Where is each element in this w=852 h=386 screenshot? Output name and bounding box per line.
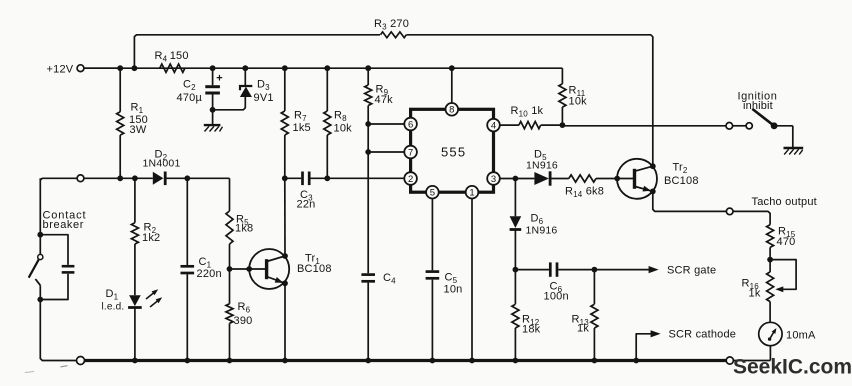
resistor R14: [565, 175, 617, 199]
svg-text:1N916: 1N916: [526, 160, 558, 172]
wire pin6: [368, 123, 404, 125]
svg-text:1k: 1k: [749, 288, 761, 300]
smudge marks: [25, 366, 68, 373]
resistor R4: [155, 50, 189, 72]
svg-text:22n: 22n: [297, 199, 316, 211]
wire contact-breaker top: [40, 178, 77, 180]
resistor R6: [226, 269, 252, 361]
wire pin1 drop: [471, 199, 473, 361]
resistor R13: [572, 270, 598, 361]
label contact breaker: [43, 210, 87, 232]
node R1 bottom: [117, 175, 123, 181]
svg-text:3: 3: [491, 174, 496, 185]
svg-text:R14 6k8: R14 6k8: [565, 186, 604, 200]
resistor R11: [559, 84, 587, 125]
node R13 top: [592, 267, 598, 273]
svg-text:8: 8: [449, 105, 454, 116]
terminal inhibit right: [746, 123, 752, 129]
ground ignition inhibit: [784, 148, 804, 155]
svg-text:SCR cathode: SCR cathode: [669, 329, 737, 341]
wire +12 rail into R11: [561, 68, 563, 84]
pin 8 of 555: [446, 103, 459, 116]
node Tr1 base junction: [227, 266, 233, 272]
svg-text:1k2: 1k2: [142, 232, 160, 244]
wire Tr1 emitter to rail: [284, 283, 286, 360]
wire pins6-7 rail to C4: [367, 124, 369, 273]
watermark SeekIC.com: [733, 356, 852, 379]
wire R5 drop: [229, 178, 231, 211]
pin 2 of 555: [404, 172, 417, 185]
node rail pin1: [469, 358, 475, 364]
svg-text:breaker: breaker: [43, 219, 85, 231]
node D3 top: [242, 65, 248, 71]
node breaker cap top: [37, 232, 43, 238]
svg-text:10n: 10n: [444, 284, 463, 296]
pin 4 of 555: [487, 119, 500, 132]
terminal breaker top: [77, 175, 84, 182]
wire meter to rail: [733, 346, 770, 361]
wire ignition inhibit: [562, 125, 726, 127]
node C2 bottom: [210, 107, 216, 113]
node Tr2 base wire: [614, 176, 620, 182]
svg-text:555: 555: [441, 145, 466, 160]
svg-text:1N4001: 1N4001: [143, 158, 181, 170]
wire pin5 drop: [431, 199, 433, 271]
diode D6 1N916: [510, 179, 558, 270]
svg-text:5: 5: [430, 188, 435, 199]
wire breaker to rail: [40, 300, 77, 361]
terminal tacho output: [726, 196, 817, 215]
node rail C4: [365, 358, 371, 364]
svg-text:390: 390: [234, 315, 253, 327]
diode D5 1N916: [526, 149, 569, 186]
svg-text:2: 2: [408, 174, 413, 185]
svg-text:6: 6: [408, 119, 413, 130]
wire pin3: [500, 178, 535, 180]
node R3 riser: [132, 65, 138, 71]
node R9 top: [365, 65, 371, 71]
transistor Q1 Tr1 BC108: [230, 249, 332, 289]
wire SCR cathode arrow: [636, 329, 736, 361]
svg-text:BC108: BC108: [664, 175, 699, 187]
pin 1 of 555: [466, 186, 479, 199]
svg-text:9V1: 9V1: [254, 92, 274, 104]
svg-text:SeekIC.com: SeekIC.com: [733, 356, 852, 379]
svg-text:R10 1k: R10 1k: [511, 105, 544, 119]
node rail C1: [184, 358, 190, 364]
node R15-R16 junction: [767, 257, 773, 263]
wire breaker left: [39, 178, 41, 255]
wire R16 wiper loop: [770, 260, 796, 293]
terminal inhibit left: [726, 123, 733, 130]
svg-text:SCR gate: SCR gate: [667, 265, 716, 277]
transistor Q2 Tr2 BC108: [617, 159, 699, 199]
wire R3 top rail: [134, 35, 380, 66]
capacitor C2: [177, 68, 223, 110]
resistor R2: [131, 178, 160, 295]
svg-text:1k8: 1k8: [235, 223, 253, 235]
potentiometer R16: [742, 260, 774, 323]
resistor R7: [281, 68, 311, 178]
svg-text:470µ: 470µ: [177, 92, 203, 104]
node R7 top: [282, 65, 288, 71]
terminal ground rail right: [726, 357, 733, 364]
zener D3: [214, 68, 274, 110]
svg-text:7: 7: [408, 147, 413, 158]
wire pin8: [451, 68, 453, 103]
node breaker bottom: [37, 297, 43, 303]
node R8 top: [324, 65, 330, 71]
svg-text:3W: 3W: [130, 124, 147, 136]
svg-text:R4 150: R4 150: [155, 50, 189, 64]
node Tr1 collector: [282, 253, 288, 259]
svg-text:4: 4: [491, 121, 496, 132]
wire ground rail: [85, 359, 726, 362]
node C2 top: [210, 65, 216, 71]
wire SCR gate arrow: [594, 265, 716, 277]
resistor R1: [117, 68, 148, 178]
op-amp U1 555 timer: [411, 109, 494, 192]
resistor R9: [365, 68, 393, 124]
wire +12V rail: [84, 67, 562, 69]
resistor R12: [512, 270, 541, 361]
node D6 top: [513, 176, 519, 182]
svg-text:1k5: 1k5: [293, 122, 311, 134]
node pin8 riser: [449, 65, 455, 71]
svg-text:+: +: [216, 73, 223, 85]
ground under C2: [204, 110, 223, 132]
terminal +12V: [47, 64, 121, 76]
capacitor C4: [361, 272, 396, 361]
svg-text:1N916: 1N916: [526, 225, 558, 237]
svg-text:18k: 18k: [522, 324, 541, 336]
node rail Tr1 emitter: [282, 358, 288, 364]
node Tr1 emitter: [282, 280, 288, 286]
node pin6 junction: [365, 121, 371, 127]
node C1 top: [184, 175, 190, 181]
capacitor C5: [426, 272, 463, 361]
wire Tr1 collector riser: [284, 178, 286, 256]
svg-text:BC108: BC108: [297, 263, 332, 275]
pin 7 of 555: [404, 146, 417, 159]
capacitor C6: [515, 262, 594, 302]
svg-text:10k: 10k: [569, 96, 588, 108]
capacitor C1: [181, 178, 222, 360]
resistor R5: [226, 211, 253, 269]
node rail D1: [132, 358, 138, 364]
wire pin7: [368, 151, 404, 153]
node rail C5: [430, 358, 436, 364]
node C6 left: [513, 267, 519, 273]
diode D2 1N4001: [143, 149, 230, 186]
terminal ground rail left: [77, 357, 85, 365]
wire D2 row: [84, 177, 153, 179]
pin 6 of 555: [404, 118, 417, 131]
resistor R10: [511, 105, 563, 129]
node pin2 wire left: [282, 175, 288, 181]
svg-text:1: 1: [469, 188, 474, 199]
svg-text:l.e.d.: l.e.d.: [102, 302, 125, 313]
wire pin4: [500, 124, 519, 126]
svg-text:47k: 47k: [375, 94, 394, 106]
switch ignition inhibit blade: [738, 91, 793, 148]
node rail SCR cathode: [633, 358, 639, 364]
svg-text:220n: 220n: [197, 268, 222, 280]
svg-text:1k: 1k: [577, 323, 589, 335]
node rail R6: [227, 358, 233, 364]
svg-text:10k: 10k: [334, 123, 353, 135]
node Tr2 collector: [650, 163, 656, 169]
node R10-R11 junction: [560, 122, 566, 128]
node Tr2 emitter: [650, 189, 656, 195]
wire inhibit gap: [733, 125, 746, 127]
led D1: [102, 287, 164, 360]
wire R3 rail right segment: [407, 35, 653, 164]
pin 5 of 555: [426, 186, 439, 199]
node R8 bottom: [324, 175, 330, 181]
switch breaker points: [29, 254, 43, 299]
node R1 top: [117, 65, 123, 71]
wire Tr2 emitter to tacho: [653, 191, 727, 211]
svg-text:100n: 100n: [544, 291, 569, 303]
resistor R8: [324, 68, 352, 178]
wire tacho to R15: [733, 211, 770, 224]
node rail R12: [513, 358, 519, 364]
meter M1 10mA: [759, 322, 816, 345]
svg-text:470: 470: [777, 236, 796, 248]
svg-text:inhibit: inhibit: [743, 100, 773, 112]
capacitor breaker condenser: [40, 235, 74, 300]
svg-text:R3 270: R3 270: [374, 18, 409, 32]
capacitor C3: [285, 172, 404, 211]
svg-text:+12V: +12V: [47, 64, 74, 76]
pin 3 of 555: [487, 172, 500, 185]
resistor R15: [767, 225, 796, 260]
node pin7 junction: [365, 149, 371, 155]
node rail R13: [592, 358, 598, 364]
svg-text:Tacho output: Tacho output: [752, 196, 817, 208]
svg-text:10mA: 10mA: [786, 330, 816, 342]
node R2 top: [132, 175, 138, 181]
resistor R3: [374, 18, 409, 38]
